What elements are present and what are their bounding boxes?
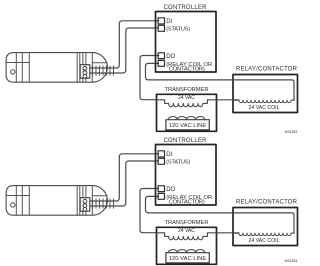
svg-text:CONTACTOR): CONTACTOR): [169, 200, 205, 206]
svg-text:DI: DI: [166, 19, 172, 25]
relay internal wire: [233, 80, 294, 100]
svg-text:DO: DO: [166, 54, 175, 60]
device terminal block (lower): [80, 198, 90, 212]
svg-text:120 VAC LINE: 120 VAC LINE: [169, 123, 207, 129]
relay/contactor box (lower): [233, 208, 298, 246]
controller box: [156, 12, 217, 73]
svg-text:(STATUS): (STATUS): [166, 159, 190, 165]
relay/contactor box: [233, 75, 298, 113]
relay 24VAC coil (lower): [233, 233, 294, 235]
transformer 120VAC primary winding (lower): [168, 250, 204, 253]
svg-text:24 VAC COIL: 24 VAC COIL: [249, 238, 280, 244]
relay internal wire (lower): [233, 213, 294, 233]
svg-text:CONTROLLER: CONTROLLER: [164, 138, 208, 144]
device seam lines: [6, 53, 107, 83]
terminal DO: [158, 53, 164, 59]
terminal DI: [158, 18, 164, 24]
cable tick marks: [93, 66, 114, 76]
svg-text:RELAY/CONTACTOR: RELAY/CONTACTOR: [236, 67, 298, 73]
terminal circles: [83, 66, 87, 78]
terminal relay coil (lower): [158, 193, 164, 199]
svg-text:24 VAC: 24 VAC: [178, 228, 195, 234]
terminal DI (lower): [158, 151, 164, 157]
svg-text:RELAY/CONTACTOR: RELAY/CONTACTOR: [236, 200, 298, 206]
wire transformer 24VAC to relay coil: [217, 99, 239, 101]
120VAC line box (lower): [166, 253, 209, 263]
svg-text:DI: DI: [166, 152, 172, 158]
wire DO to transformer 24VAC (lower): [140, 189, 159, 233]
svg-text:M31394: M31394: [285, 259, 298, 263]
device terminal block: [80, 65, 90, 79]
svg-text:CONTACTOR): CONTACTOR): [169, 67, 205, 73]
wire relay-coil terminal to relay box (lower): [146, 196, 234, 213]
device mounting hole: [11, 70, 15, 74]
device seam lines (lower): [6, 186, 107, 216]
wire device to DI (lower): [90, 154, 159, 201]
terminal relay coil: [158, 60, 164, 66]
svg-text:TRANSFORMER: TRANSFORMER: [165, 87, 209, 93]
controller box (lower): [156, 145, 217, 206]
svg-text:M31393: M31393: [285, 130, 298, 134]
terminal STATUS: [158, 25, 164, 31]
svg-text:(STATUS): (STATUS): [166, 26, 190, 32]
wire device to DI: [90, 21, 159, 68]
120VAC line box: [166, 120, 209, 130]
terminal DO (lower): [158, 186, 164, 192]
transformer box: [157, 94, 217, 131]
wire device to STATUS: [90, 28, 159, 73]
power pack device body: [6, 53, 107, 83]
transformer 24VAC secondary winding (lower): [157, 233, 217, 240]
wire DO to transformer 24VAC: [140, 56, 159, 100]
transformer box (lower): [157, 227, 217, 264]
terminal circles (lower): [83, 199, 87, 211]
relay 24VAC coil: [233, 100, 294, 102]
terminal STATUS (lower): [158, 158, 164, 164]
power pack device body (lower): [6, 186, 107, 216]
svg-text:CONTROLLER: CONTROLLER: [164, 5, 208, 11]
cable tick marks (lower): [93, 199, 114, 209]
transformer 24VAC secondary winding: [157, 100, 217, 107]
svg-text:120 VAC LINE: 120 VAC LINE: [169, 256, 207, 262]
svg-text:TRANSFORMER: TRANSFORMER: [165, 220, 209, 226]
svg-text:DO: DO: [166, 187, 175, 193]
transformer 120VAC primary winding: [168, 117, 204, 120]
wire relay-coil terminal to relay box: [146, 63, 234, 80]
device mounting hole (lower): [11, 203, 15, 207]
svg-text:24 VAC COIL: 24 VAC COIL: [249, 105, 280, 111]
svg-text:24 VAC: 24 VAC: [178, 95, 195, 101]
wire device to STATUS (lower): [90, 161, 159, 206]
wire transformer 24VAC to relay coil (lower): [217, 232, 239, 234]
